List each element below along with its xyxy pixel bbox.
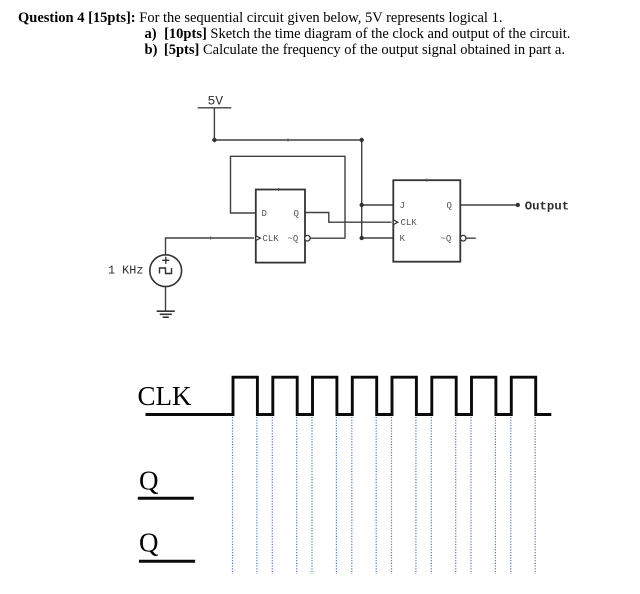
svg-text:Q: Q — [294, 209, 299, 219]
svg-text:5V: 5V — [208, 94, 224, 109]
svg-text:Output: Output — [525, 199, 569, 213]
svg-text:Q: Q — [139, 465, 159, 495]
svg-text:CLK: CLK — [263, 234, 280, 244]
svg-text:~Q: ~Q — [288, 234, 299, 244]
svg-text:K: K — [400, 234, 406, 244]
svg-text:J: J — [400, 201, 405, 211]
svg-text:CLK: CLK — [401, 218, 418, 228]
svg-text:Q: Q — [139, 528, 159, 558]
svg-text:~Q: ~Q — [441, 234, 452, 244]
svg-text:Q: Q — [447, 201, 452, 211]
svg-text:D: D — [262, 209, 267, 219]
svg-text:1 KHz: 1 KHz — [108, 264, 143, 278]
svg-text:CLK: CLK — [138, 381, 193, 411]
